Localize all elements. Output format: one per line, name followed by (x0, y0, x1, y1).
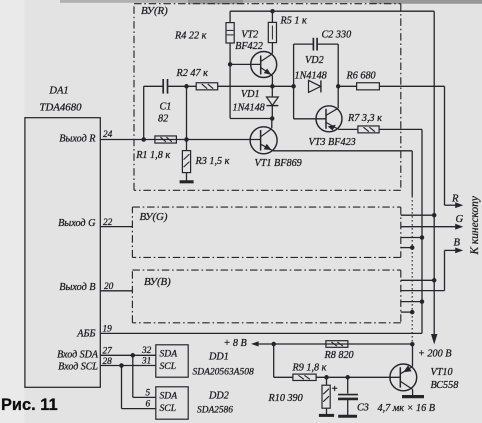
svg-text:6: 6 (146, 399, 151, 409)
wire VT3 base vertical (293, 86, 295, 119)
block BU(G) dash-dot frame (132, 207, 400, 257)
wire VT2 base (230, 63, 261, 65)
wire R5 to VT2 collector (271, 43, 273, 54)
node dot R5 top (270, 9, 275, 14)
capacitor C2 (313, 38, 317, 51)
svg-text:Выход G: Выход G (58, 218, 96, 229)
label R4 22 к (174, 31, 207, 42)
svg-text:DD2: DD2 (208, 390, 229, 401)
wire pin20 to BU(B) (100, 290, 132, 292)
wire pin22 to BU(G) (100, 226, 132, 228)
svg-text:Выход R: Выход R (59, 134, 96, 145)
resistor R3 (182, 151, 190, 173)
wire BU(G) АББ stub (401, 237, 422, 239)
wire loop right vertical (337, 44, 339, 86)
label BU(B) (144, 276, 171, 288)
wire B output vertical (444, 250, 446, 290)
wire VT10 emitter lead (412, 344, 414, 366)
svg-text:1N4148: 1N4148 (233, 103, 265, 114)
svg-text:+ 200 В: + 200 В (418, 348, 451, 359)
wire C1 branch vertical left (143, 86, 145, 139)
svg-text:+ 8 В: + 8 В (224, 338, 247, 349)
rail +200V vertical (433, 11, 435, 336)
wire R10 top lead (326, 377, 328, 385)
transistor VT2 (251, 52, 277, 78)
svg-text:R6 680: R6 680 (346, 70, 376, 81)
svg-text:SDA2586: SDA2586 (197, 405, 233, 415)
svg-text:SDA20563A508: SDA20563A508 (193, 368, 254, 378)
scan noise top edge (60, 0, 482, 4)
pin 31 (141, 357, 151, 367)
pin 27 (103, 347, 113, 357)
node dot VT2 base tap (228, 62, 233, 67)
svg-text:R9 1,8 к: R9 1,8 к (292, 363, 327, 374)
wire VT3 emitter to R7 (339, 128, 358, 130)
label SCL (DD1) (160, 361, 177, 372)
label VD2 (305, 55, 324, 66)
resistor R8 (326, 341, 348, 348)
label 4,7мк х 16В (378, 403, 435, 414)
svg-text:5: 5 (146, 388, 151, 398)
node dot bus412 bottom (410, 342, 415, 347)
svg-text:82: 82 (158, 113, 168, 124)
wire VT1 emitter line (273, 150, 412, 152)
wire pin27 SDA (100, 354, 156, 356)
svg-text:VT2: VT2 (241, 29, 258, 40)
node dot bus422-B (420, 299, 425, 304)
wire VT1 collector lead (271, 119, 273, 129)
node dot bus412-B (410, 310, 415, 315)
transistor VT10 (390, 364, 417, 391)
wire R6 to output corner (379, 85, 444, 87)
svg-text:ВС558: ВС558 (431, 380, 459, 391)
label 82 (158, 113, 168, 124)
arrow output R (445, 202, 464, 208)
svg-text:VD2: VD2 (305, 55, 324, 66)
label 1N4148 (VD1) (233, 103, 265, 114)
node dot C1-R2 junction (184, 84, 189, 89)
pin 24 (103, 130, 113, 140)
wire loop to R6 (338, 85, 356, 87)
wire VD1 cathode lead (271, 106, 273, 119)
wire R5 top lead (271, 11, 273, 22)
svg-text:VT10: VT10 (431, 367, 453, 378)
label Выход G (58, 218, 96, 229)
IC DA1 TDA4680 box (25, 118, 100, 388)
wire BU(G) feedback stub (401, 247, 412, 249)
wire pin24 to VT1 base (100, 139, 260, 141)
resistor R4 (226, 23, 234, 43)
label Вход SCL (58, 361, 98, 372)
label +8 В (224, 338, 247, 349)
label VT1 BF869 (255, 158, 302, 169)
svg-text:+: + (332, 384, 338, 395)
wire VT2 emitter lead (271, 76, 273, 87)
svg-text:К кинескопу: К кинескопу (469, 195, 481, 255)
transistor VT3 (316, 106, 342, 132)
wire R10 to ground (326, 408, 328, 415)
svg-text:31: 31 (141, 357, 151, 367)
svg-text:SDA: SDA (160, 349, 178, 360)
node dot SDA branch (131, 353, 136, 358)
transistor VT1 (250, 127, 277, 154)
label АББ (76, 328, 95, 339)
bus emitter bias x412 vertical (411, 151, 413, 344)
resistor R7 (358, 126, 379, 133)
wire BU(G) +200 stub (401, 214, 434, 216)
svg-text:R4 22 к: R4 22 к (174, 31, 207, 42)
svg-text:R: R (451, 194, 459, 205)
svg-text:Выход В: Выход В (59, 282, 95, 293)
label SDA2586 (197, 405, 233, 415)
label DD1 (208, 351, 229, 362)
wire VD1 anode lead (271, 86, 273, 97)
svg-text:SCL: SCL (160, 361, 177, 372)
node dot bus422-G (420, 235, 425, 240)
svg-text:АББ: АББ (76, 328, 95, 339)
bus R7 x422 vertical (421, 129, 423, 333)
wire loop top left (294, 43, 314, 45)
wire node vertical (186, 86, 188, 150)
label BU(R) (141, 5, 168, 17)
label R output (451, 194, 459, 205)
wire R4 top lead (229, 11, 231, 22)
svg-text:1N4148: 1N4148 (295, 70, 327, 81)
wire pin28 SCL (100, 365, 156, 367)
ground VT10 (402, 395, 424, 398)
capacitor C3 (338, 395, 358, 399)
pin 5 (146, 388, 151, 398)
wire SCL to DD2 (122, 366, 156, 409)
wire BU(B) АББ stub (401, 301, 422, 303)
arrow output B (445, 248, 464, 254)
svg-text:Вход SCL: Вход SCL (58, 361, 98, 372)
label BF422 (235, 41, 263, 52)
svg-text:R3 1,5 к: R3 1,5 к (195, 156, 230, 167)
wire G output (401, 226, 457, 228)
svg-text:С3: С3 (357, 402, 369, 413)
pin 19 (103, 325, 113, 335)
wire SDA to DD2 (133, 355, 156, 397)
label BU(G) (140, 211, 168, 223)
wire VT3 collector lead (337, 86, 339, 108)
arrow +8V left (251, 341, 259, 346)
svg-text:TDA4680: TDA4680 (40, 102, 83, 114)
block BU(R) dash-dot frame (134, 4, 401, 191)
svg-text:R7 3,3 к: R7 3,3 к (347, 113, 382, 124)
label G output (456, 214, 464, 225)
wire BU(B) +200 stub (401, 279, 434, 281)
wire R7 to bus (379, 128, 422, 130)
svg-text:VD1: VD1 (241, 89, 260, 100)
svg-text:24: 24 (103, 130, 113, 140)
wire +8V to R9 (273, 344, 275, 377)
label SDA20563A508 (193, 368, 254, 378)
arrow +200V down (431, 334, 437, 345)
node dot loop left (291, 84, 296, 89)
label К кинескопу (469, 195, 481, 255)
svg-text:4,7 мк × 16 В: 4,7 мк × 16 В (378, 403, 435, 414)
svg-text:R10 390: R10 390 (268, 393, 303, 404)
label 1N4148 (VD2) (295, 70, 327, 81)
wire VT3 base (294, 118, 326, 120)
svg-text:ВУ(R): ВУ(R) (141, 5, 168, 17)
svg-text:VT3 ВF423: VT3 ВF423 (309, 137, 356, 148)
diode VD1 (267, 97, 279, 106)
resistor R6 (357, 83, 380, 90)
svg-text:32: 32 (141, 346, 152, 356)
wire loop left vertical (293, 44, 295, 86)
node dot SCL branch (119, 363, 124, 368)
wire R output vertical (444, 86, 446, 205)
svg-text:ВУ(В): ВУ(В) (144, 276, 171, 288)
arrow output G (455, 224, 463, 230)
node dot VD1 cathode - VT1 collector (270, 116, 275, 121)
label C3 (357, 402, 369, 413)
svg-text:R5 1 к: R5 1 к (280, 15, 308, 26)
svg-text:SCL: SCL (160, 403, 177, 414)
svg-text:SDA: SDA (160, 391, 178, 402)
resistor R10 (322, 385, 330, 408)
node dot C1 tap (141, 137, 146, 142)
label R3 1,5 к (195, 156, 230, 167)
capacitor C3 plus sign (332, 384, 338, 395)
svg-text:VT1 ВF869: VT1 ВF869 (255, 158, 302, 169)
label SCL (DD2) (160, 403, 177, 414)
block BU(B) dash-dot frame (132, 270, 400, 323)
pin 22 (103, 218, 113, 228)
node dot rail-G (432, 213, 437, 218)
label Выход B (59, 282, 95, 293)
node dot R10 top (324, 375, 329, 380)
label R6 680 (346, 70, 376, 81)
label VT3 BF423 (309, 137, 356, 148)
diode VD2 (309, 80, 321, 92)
wire R2 to node A (218, 85, 294, 87)
label R10 390 (268, 393, 303, 404)
label Выход R (59, 134, 96, 145)
svg-text:R2 47 к: R2 47 к (176, 68, 209, 79)
wire to R9 (274, 376, 293, 378)
capacitor C1 (163, 79, 167, 94)
label VT2 (241, 29, 258, 40)
wire C1 branch top left (144, 85, 163, 87)
label DD2 (208, 390, 229, 401)
caption Рис. 11 (1, 396, 58, 414)
label TDA4680 (40, 102, 83, 114)
wire C3 top lead (347, 377, 349, 393)
svg-text:DD1: DD1 (208, 351, 229, 362)
wire R3 to ground (186, 173, 188, 182)
label R7 3,3 к (347, 113, 382, 124)
wire АББ line (100, 332, 422, 334)
ground C3 (338, 415, 357, 418)
node dot +8V junction (271, 342, 276, 347)
resistor R9 (293, 374, 316, 380)
node dot rail-B (432, 278, 437, 283)
label R9 1,8 к (292, 363, 327, 374)
label R2 47 к (176, 68, 209, 79)
label +200 В (418, 348, 451, 359)
ground R10 (319, 414, 334, 417)
label VT10 (431, 367, 453, 378)
wire C1 to node (168, 85, 197, 87)
label SDA (DD1) (160, 349, 178, 360)
label VD1 (241, 89, 260, 100)
wire top rail (230, 10, 434, 12)
ground R3 (180, 180, 194, 183)
wire R9 to VT10 base (316, 376, 400, 378)
wire +8V line (258, 343, 412, 345)
svg-text:R8 820: R8 820 (324, 350, 354, 361)
svg-text:ВF422: ВF422 (235, 41, 263, 52)
svg-text:G: G (456, 214, 464, 225)
node dot bus412-G (410, 245, 415, 250)
svg-text:Вход SDA: Вход SDA (57, 349, 99, 360)
label R8 820 (324, 350, 354, 361)
svg-text:Рис. 11: Рис. 11 (1, 396, 58, 414)
resistor R5 (268, 22, 276, 42)
node dot loop right (336, 84, 341, 89)
pin 20 (104, 282, 114, 292)
label R5 1 к (280, 15, 308, 26)
node dot R1-R2-R3 junction (184, 137, 189, 142)
resistor R1 (155, 136, 177, 143)
wire C3 to ground (347, 400, 349, 415)
node dot VT2 emitter node (270, 84, 275, 89)
pin 6 (146, 399, 151, 409)
label DA1 (48, 86, 68, 97)
IC DD1 box (156, 345, 188, 377)
svg-text:R1 1,8 к: R1 1,8 к (135, 150, 170, 161)
svg-text:В: В (454, 237, 461, 248)
wire VT10 collector lead (412, 389, 414, 395)
pin 32 (141, 346, 152, 356)
wire B output stub (401, 290, 445, 292)
svg-text:С1: С1 (160, 101, 172, 112)
pin 28 (103, 357, 113, 367)
label C2 330 (322, 30, 352, 41)
label C1 (160, 101, 172, 112)
label R1 1,8 к (135, 150, 170, 161)
label BC558 (431, 380, 459, 391)
label Вход SDA (57, 349, 99, 360)
svg-text:DA1: DA1 (48, 86, 68, 97)
wire BU(B) feedback stub (401, 311, 412, 313)
node dot C3 top (345, 375, 350, 380)
wire loop top right (317, 43, 338, 45)
label B output (454, 237, 461, 248)
svg-text:С2 330: С2 330 (322, 30, 352, 41)
label SDA (DD2) (160, 391, 178, 402)
wire R4 to VT2 base and VT1 collector link (230, 43, 272, 119)
resistor R2 (196, 83, 218, 90)
svg-text:ВУ(G): ВУ(G) (140, 211, 168, 223)
IC DD2 box (156, 387, 188, 419)
